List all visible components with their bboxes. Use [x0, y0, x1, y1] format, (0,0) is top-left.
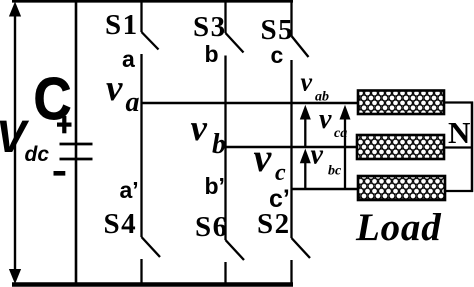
wire leg c top contact: [290, 0, 292, 36]
Vdc measurement arrow (double headed): [9, 2, 21, 285]
label + polarity: [57, 116, 72, 133]
svg-text:S3: S3: [193, 11, 227, 43]
wire leg a middle: [140, 54, 142, 237]
svg-text:a: a: [126, 87, 140, 118]
load resistor phase c: [358, 176, 445, 200]
label va: [106, 68, 140, 118]
switch S4 blade: [142, 237, 161, 257]
label - polarity: [54, 171, 66, 176]
svg-text:Load: Load: [355, 206, 442, 249]
wire load b to neutral: [444, 146, 473, 148]
wire phase c output line: [292, 188, 359, 191]
svg-text:v: v: [191, 108, 208, 149]
wire top bus: [12, 0, 293, 3]
svg-text:N: N: [448, 115, 470, 150]
svg-text:c: c: [271, 42, 284, 68]
wire load c to neutral: [445, 190, 473, 192]
svg-text:S4: S4: [104, 208, 138, 240]
load resistor phase a: [358, 91, 444, 115]
switch S6 blade: [226, 240, 245, 260]
switch S3 blade: [226, 33, 244, 53]
wire load a to neutral: [444, 101, 473, 103]
arrow vbc (c line up to b line): [300, 149, 311, 190]
switch S2 blade: [292, 238, 311, 258]
svg-text:dc: dc: [25, 143, 50, 166]
wire phase b output line: [226, 146, 358, 149]
switch S1 blade: [142, 32, 159, 50]
load resistor phase b: [357, 135, 444, 159]
wire leg c bottom contact: [290, 260, 292, 284]
label vc: [254, 135, 287, 186]
svg-text:v: v: [106, 68, 123, 109]
wire leg b bottom contact: [224, 262, 226, 284]
wire neutral bus: [471, 102, 474, 193]
label vb: [191, 108, 227, 160]
svg-text:ab: ab: [315, 90, 329, 105]
wire leg a top contact: [140, 0, 142, 32]
svg-text:v: v: [319, 104, 332, 135]
wire leg b middle: [224, 56, 226, 241]
svg-text:c: c: [275, 160, 286, 186]
svg-text:bc: bc: [328, 164, 342, 179]
svg-text:b’: b’: [205, 173, 225, 199]
svg-text:b: b: [205, 41, 219, 67]
label vbc: [311, 140, 343, 179]
wire leg c middle: [290, 60, 292, 238]
svg-text:a’: a’: [120, 177, 139, 203]
svg-text:a: a: [122, 46, 135, 72]
svg-text:ca: ca: [334, 126, 347, 141]
svg-text:b: b: [212, 129, 226, 160]
wire leg b top contact: [224, 0, 226, 33]
svg-text:S1: S1: [105, 9, 139, 41]
wire phase a output line: [142, 102, 359, 105]
switch S5 blade: [292, 36, 309, 57]
svg-text:v: v: [311, 140, 324, 171]
arrow vca (c line up to a line, right): [340, 105, 351, 189]
svg-text:c’: c’: [269, 185, 290, 213]
svg-text:v: v: [254, 135, 273, 180]
svg-text:S6: S6: [195, 211, 229, 243]
wire bottom bus: [12, 282, 293, 287]
arrow vab (b line up to a line): [300, 105, 311, 147]
capacitor C1 plates: [60, 144, 93, 159]
label vab: [301, 68, 330, 105]
svg-text:v: v: [301, 68, 313, 97]
wire leg a bottom contact: [140, 259, 142, 284]
label Vdc: [0, 111, 49, 166]
label vca: [319, 104, 347, 141]
wire dc bus vertical: [75, 0, 78, 286]
